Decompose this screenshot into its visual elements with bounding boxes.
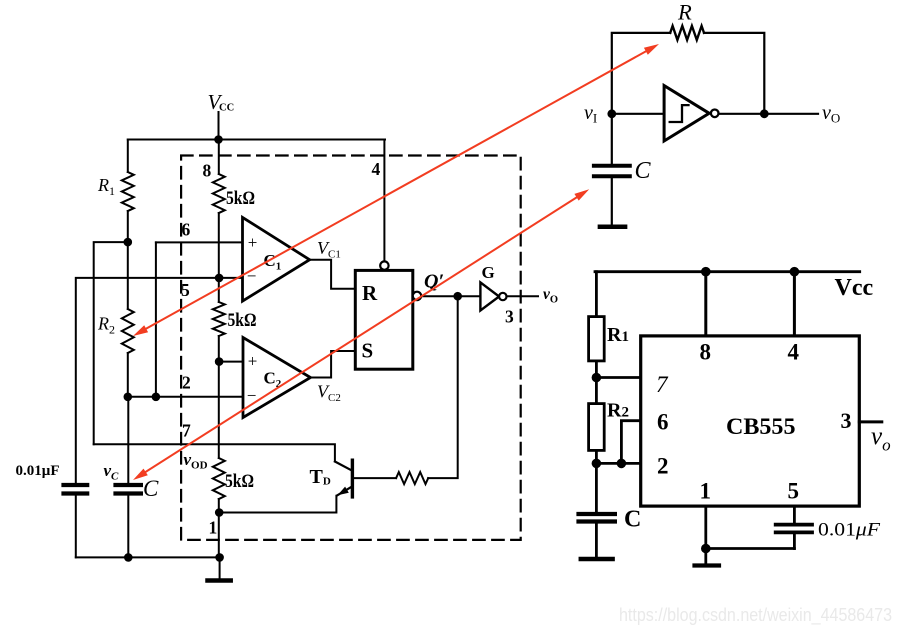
svg-text:vo: vo xyxy=(871,423,891,455)
wire capacitor C top xyxy=(127,397,129,483)
wire 5k2 to node xyxy=(218,336,220,362)
junction pin1-ground (CB555) xyxy=(702,545,710,553)
resistor R2 (CB555) xyxy=(589,404,605,451)
svg-text:4: 4 xyxy=(788,340,800,365)
junction R2-C-pin2 node xyxy=(125,394,132,401)
ground (CB555 bottom) xyxy=(695,563,720,567)
svg-text:0.01μF: 0.01μF xyxy=(16,463,60,479)
capacitor C (CB555) xyxy=(579,512,615,516)
junction C-ground rail xyxy=(125,554,132,561)
transistor TD xyxy=(351,460,354,497)
wire C to ground (CB555) xyxy=(595,524,598,558)
wire Vcc stub xyxy=(218,112,220,140)
svg-text:CB555: CB555 xyxy=(726,414,796,440)
annotation arrow R2 to R xyxy=(141,49,651,332)
annotation arrow C to C xyxy=(141,194,582,475)
wire pin2 horizontal xyxy=(128,396,243,398)
svg-text:C: C xyxy=(635,158,652,184)
junction rail pin4 xyxy=(791,268,799,276)
svg-text:VC2: VC2 xyxy=(317,382,341,405)
capacitor C (timing) xyxy=(116,483,141,487)
svg-text:+: + xyxy=(248,233,258,252)
schmitt hysteresis symbol xyxy=(670,105,689,122)
svg-text:2: 2 xyxy=(182,373,191,393)
junction divider-ground xyxy=(216,554,223,561)
svg-text:1: 1 xyxy=(700,479,712,504)
resistor 5k lower xyxy=(213,458,225,499)
flip-flop RS box xyxy=(355,270,413,369)
wire Vcc rail (CB555) xyxy=(595,270,860,273)
wire pin4 vertical xyxy=(383,140,385,262)
inverter U1 schmitt xyxy=(664,86,709,141)
wire emitter to node xyxy=(219,496,336,513)
svg-text:5: 5 xyxy=(181,280,190,300)
svg-text:vI: vI xyxy=(584,102,597,126)
svg-text:VC1: VC1 xyxy=(317,238,341,261)
junction divider pin5 xyxy=(216,275,223,282)
wire R1 to node xyxy=(127,211,129,242)
svg-text:R: R xyxy=(677,0,692,25)
wire 5k1 to 5k2 xyxy=(218,213,220,302)
capacitor C (top right) xyxy=(594,164,630,168)
junction pin6 tie xyxy=(153,394,160,401)
wire pin5 horizontal xyxy=(76,278,243,483)
svg-text:CC: CC xyxy=(219,103,234,114)
svg-text:vOD: vOD xyxy=(184,450,208,472)
svg-text:R1: R1 xyxy=(607,324,629,346)
wire pin6 tie vertical xyxy=(155,242,157,396)
ground (left diagram) xyxy=(208,578,231,583)
junction divider C2+ xyxy=(216,358,223,365)
wire R2 to node2 xyxy=(595,450,598,513)
wire 0.01uF bottom xyxy=(75,496,77,558)
svg-text:TD: TD xyxy=(310,466,331,488)
wire 5k2 down xyxy=(218,362,220,458)
svg-text:G: G xyxy=(482,263,495,282)
svg-text:5: 5 xyxy=(788,479,800,504)
svg-text:8: 8 xyxy=(700,340,712,365)
wire to ground symbol xyxy=(219,557,221,579)
svg-text:R: R xyxy=(362,281,378,305)
wire pin3 (CB555) xyxy=(859,420,882,423)
wire pin1 to pin5 (CB555) xyxy=(706,547,795,550)
wire C1 output to R xyxy=(310,260,356,289)
svg-text:5kΩ: 5kΩ xyxy=(228,310,257,331)
wire pin8 vertical (CB555) xyxy=(704,272,707,336)
op-amp C2 comparator xyxy=(243,338,311,418)
svg-text:7: 7 xyxy=(656,372,669,397)
resistor 5k upper xyxy=(213,174,225,213)
junction rail pin8 xyxy=(702,268,710,276)
wire ground rail bottom xyxy=(76,556,220,558)
junction pin6 tie (CB555) xyxy=(618,460,626,468)
resistor R1 xyxy=(122,172,134,211)
resistor R1 (CB555) xyxy=(589,317,605,361)
svg-text:6: 6 xyxy=(182,220,191,240)
wire Q to G xyxy=(421,295,480,297)
wire R2 top xyxy=(127,242,129,309)
ground (CB555 left) xyxy=(581,557,613,562)
junction R1-R2-pin7 (CB555) xyxy=(593,374,601,382)
junction output-feedback xyxy=(761,110,768,117)
wire C2+ input xyxy=(219,361,243,363)
wire capacitor C bottom xyxy=(127,496,129,558)
capacitor 0.01uF (CB555) xyxy=(776,523,812,527)
svg-text:C: C xyxy=(624,507,641,533)
ground (top right) xyxy=(600,225,625,230)
wire pin7 horizontal xyxy=(94,444,335,461)
junction Q-base node xyxy=(454,293,461,300)
resistor base xyxy=(396,472,428,484)
op-amp C1 comparator xyxy=(243,217,310,301)
wire R left segment xyxy=(612,33,670,114)
junction Vcc-rail xyxy=(215,136,222,143)
wire rail to R1 xyxy=(595,272,598,317)
wire U1 output xyxy=(719,113,818,115)
wire Q node to base resistor xyxy=(428,296,458,478)
wire 5k3 to emitter node xyxy=(218,499,220,557)
wire capacitor to ground xyxy=(611,178,613,225)
svg-text:1: 1 xyxy=(209,518,218,538)
wire pin6 horizontal xyxy=(156,241,243,243)
resistor 5k middle xyxy=(213,302,225,336)
wire top rail xyxy=(128,139,385,141)
inverter G xyxy=(480,282,499,310)
svg-text:S: S xyxy=(362,339,374,363)
svg-text:4: 4 xyxy=(372,159,381,179)
svg-text:https://blog.csdn.net/weixin_4: https://blog.csdn.net/weixin_44586473 xyxy=(619,605,892,626)
bubble Q output xyxy=(413,292,421,300)
svg-text:Vcc: Vcc xyxy=(835,275,874,301)
wire pin2 (CB555) xyxy=(596,462,640,465)
resistor R2 xyxy=(122,309,134,353)
capacitor 0.01uF xyxy=(64,483,88,487)
svg-text:3: 3 xyxy=(505,307,514,327)
svg-text:3: 3 xyxy=(841,408,852,433)
junction emitter node xyxy=(216,509,223,516)
wire to ground (CB555) xyxy=(704,549,707,564)
svg-text:R2: R2 xyxy=(97,314,115,337)
wire R2 bottom xyxy=(127,353,129,397)
wire vI to capacitor xyxy=(611,114,613,164)
svg-text:C: C xyxy=(143,476,159,501)
junction R1-R2-pin7 xyxy=(125,239,132,246)
wire pin6 stub (CB555) xyxy=(621,421,640,464)
dashed box 555 internals xyxy=(181,156,521,540)
svg-text:vO: vO xyxy=(822,102,840,126)
bubble RS top xyxy=(380,261,388,269)
junction vI node xyxy=(608,110,615,117)
svg-text:0.01μF: 0.01μF xyxy=(818,520,880,541)
wire base resistor to TD xyxy=(354,477,396,479)
wire C2 output to S xyxy=(311,351,356,378)
wire vI to inverter xyxy=(612,113,664,115)
svg-text:5kΩ: 5kΩ xyxy=(225,471,254,492)
svg-text:7: 7 xyxy=(182,421,191,441)
bubble G output xyxy=(499,293,506,300)
resistor R feedback xyxy=(670,26,704,40)
junction R2-pin2 (CB555) xyxy=(593,460,601,468)
svg-text:R2: R2 xyxy=(607,400,629,422)
wire G to vO xyxy=(507,295,539,297)
wire pin8 from rail xyxy=(218,140,220,175)
CB555 box xyxy=(641,336,860,506)
svg-text:2: 2 xyxy=(657,454,669,479)
wire pin1 vertical (CB555) xyxy=(704,506,707,548)
svg-text:5kΩ: 5kΩ xyxy=(226,188,255,209)
wire R1 to node7 xyxy=(595,361,598,404)
wire node to left xyxy=(94,242,128,444)
svg-text:vC: vC xyxy=(104,461,120,483)
svg-text:vO: vO xyxy=(543,286,558,306)
svg-text:8: 8 xyxy=(203,161,212,181)
bubble U1 output xyxy=(711,110,719,118)
wire 0.01uF to pin1 wire xyxy=(793,534,796,549)
wire R1 branch down xyxy=(127,140,129,173)
wire R right segment xyxy=(704,33,764,114)
svg-text:+: + xyxy=(248,352,258,371)
svg-text:6: 6 xyxy=(657,410,669,435)
wire pin4 vertical (CB555) xyxy=(793,272,796,336)
wire node to pin7 xyxy=(596,376,640,379)
wire pin5 vertical (CB555) xyxy=(793,506,796,522)
svg-text:R1: R1 xyxy=(97,175,115,198)
